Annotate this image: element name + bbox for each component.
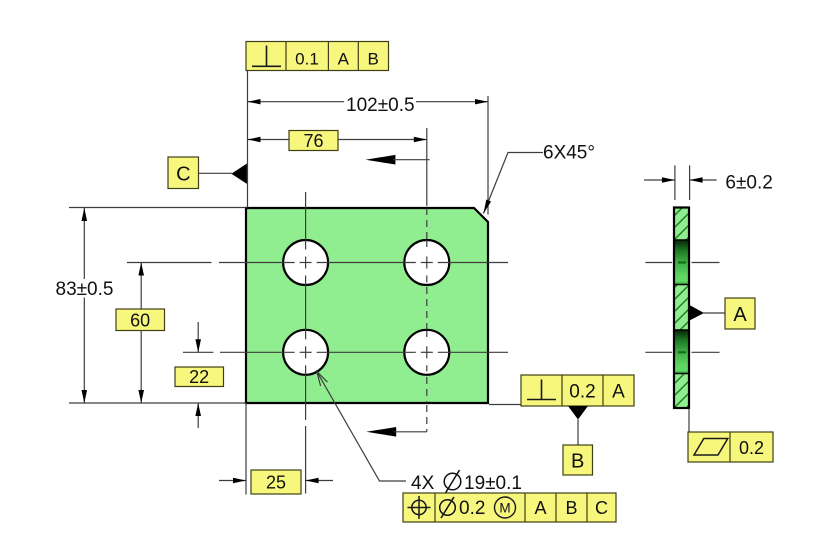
side view body — [674, 208, 689, 409]
centerline column2 dashed — [426, 128, 428, 432]
dimension 25 arrows — [219, 478, 333, 483]
svg-text:C: C — [595, 498, 608, 518]
plate front view — [246, 208, 488, 403]
position symbol — [412, 500, 426, 514]
hole bottom-left — [283, 330, 328, 375]
svg-text:A: A — [612, 382, 625, 403]
svg-text:25: 25 — [266, 473, 286, 493]
side view hatch — [672, 199, 691, 446]
dimension 102 line — [248, 101, 345, 103]
datum B triangle — [568, 406, 588, 420]
side view hole edges — [674, 240, 689, 374]
side view hole band bottom — [674, 330, 689, 374]
FCF perpendicularity 0.2 A frame — [521, 375, 634, 406]
svg-text:6X45°: 6X45° — [543, 143, 595, 164]
dimension 60 line — [140, 263, 142, 404]
dimension 6 extension lines — [674, 165, 676, 200]
dimension 60 label box — [116, 309, 165, 331]
dimension 76 line — [248, 139, 427, 141]
svg-text:83±0.5: 83±0.5 — [56, 279, 114, 300]
side view hole band top — [674, 240, 689, 285]
svg-text:B: B — [565, 498, 577, 518]
centerline column1 — [305, 192, 307, 494]
flatness leader — [688, 409, 690, 433]
svg-text:B: B — [571, 451, 584, 473]
side view centerline top — [645, 262, 719, 264]
side view centerline bottom — [645, 351, 719, 353]
FCF flatness frame — [688, 432, 773, 462]
hole bottom-right — [404, 330, 449, 375]
svg-text:0.2: 0.2 — [739, 438, 764, 458]
svg-text:A: A — [534, 498, 546, 518]
centerline row2 — [183, 351, 508, 353]
FCF perpendicularity 0.2 A leader — [489, 404, 521, 406]
chamfer note 6X45 leader — [484, 153, 544, 214]
FCF perpendicularity 0.1 A B — [246, 42, 389, 71]
svg-text:A: A — [733, 304, 747, 326]
dimension 22 arrows — [195, 322, 201, 428]
svg-text:0.1: 0.1 — [295, 49, 319, 68]
datum A label — [725, 298, 755, 329]
note 4X dia 19 text — [411, 470, 522, 494]
dimension 83 line — [83, 208, 85, 279]
svg-text:A: A — [338, 49, 350, 68]
svg-text:76: 76 — [303, 131, 323, 151]
svg-text:102±0.5: 102±0.5 — [346, 95, 415, 116]
svg-text:0.2: 0.2 — [569, 382, 595, 403]
diameter symbol — [440, 500, 456, 516]
side view outline — [674, 208, 689, 409]
hole top-right — [404, 240, 449, 285]
direction arrow bottom — [366, 427, 427, 437]
dimension 25 label box — [251, 470, 301, 494]
datum C leader — [199, 172, 233, 174]
dimension 76 label box — [289, 131, 338, 151]
leader 4X holes — [317, 372, 406, 482]
datum C triangle — [231, 164, 247, 184]
svg-text:60: 60 — [130, 311, 150, 331]
FCF position frame — [403, 493, 616, 522]
svg-text:19±0.1: 19±0.1 — [464, 473, 522, 494]
datum B leader — [577, 420, 579, 446]
dimension 22 label box — [175, 367, 224, 387]
svg-text:6±0.2: 6±0.2 — [725, 173, 772, 194]
direction arrow top — [366, 155, 430, 165]
datum A triangle — [690, 305, 705, 321]
datum A leader — [703, 312, 725, 314]
svg-text:B: B — [368, 49, 379, 68]
dimension 102 extension lines — [247, 71, 249, 208]
dimension 25 extension line — [245, 403, 247, 495]
hole top-left — [283, 240, 328, 285]
datum B label — [563, 445, 593, 475]
svg-text:C: C — [176, 164, 190, 186]
svg-text:4X: 4X — [411, 473, 435, 494]
modifier M circle — [495, 497, 516, 518]
centerline row1 — [127, 262, 508, 264]
svg-text:0.2: 0.2 — [459, 498, 485, 519]
datum C label — [168, 157, 199, 189]
dimension 83 extension lines — [69, 207, 246, 209]
svg-text:22: 22 — [189, 367, 209, 387]
dimension 6 arrows — [644, 177, 717, 182]
svg-text:M: M — [499, 501, 510, 516]
